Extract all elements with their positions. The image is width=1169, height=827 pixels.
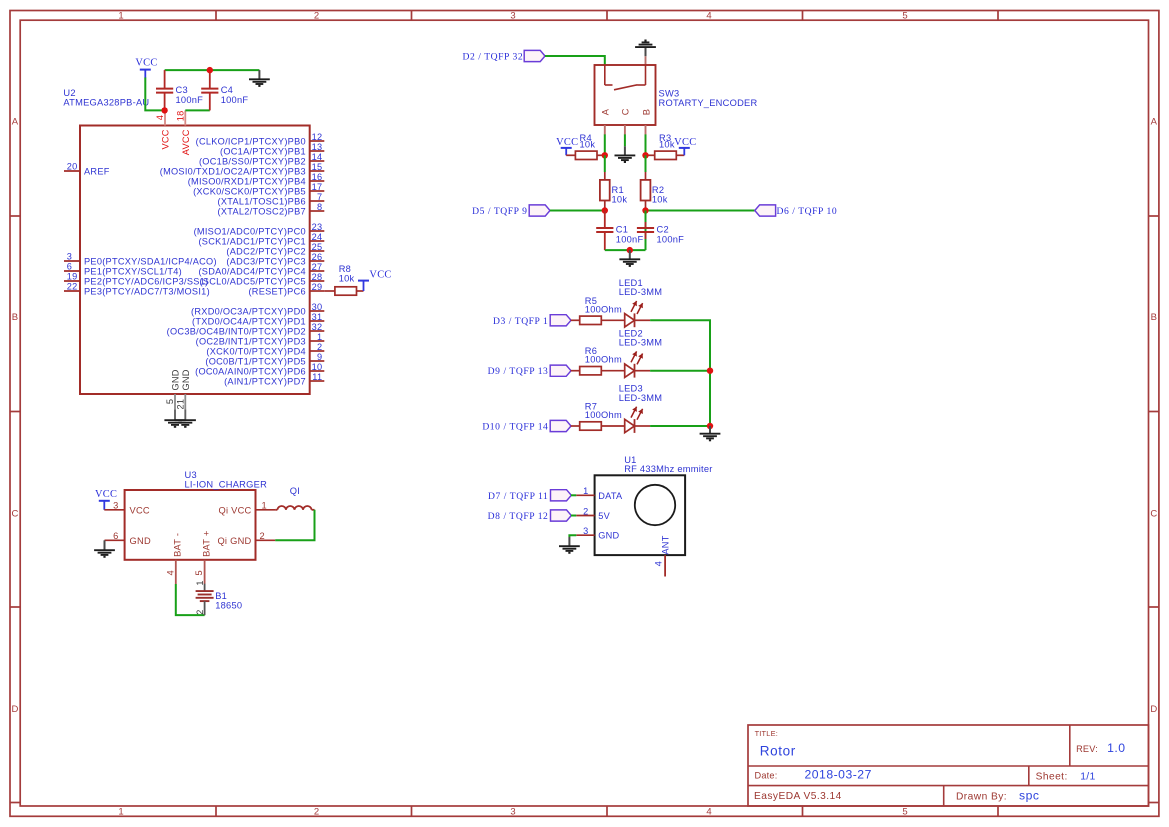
U2 pin 5 GND <box>165 369 181 419</box>
wire node B to R3 <box>646 154 655 156</box>
U2 pin 31 PD1 <box>192 312 324 326</box>
svg-text:Qi GND: Qi GND <box>217 536 251 546</box>
U2 pin 4 VCC <box>155 110 171 149</box>
svg-text:3: 3 <box>510 807 515 818</box>
svg-text:Date:: Date: <box>755 771 778 781</box>
svg-text:(ADC2/PTCY)PC2: (ADC2/PTCY)PC2 <box>226 246 305 256</box>
SW3 pin B stub <box>645 125 647 135</box>
switch SW3 ROTARTY_ENCODER body <box>595 65 656 125</box>
wire node B to D6 <box>646 210 755 212</box>
SW3 top pin line <box>645 56 647 65</box>
U2 pin 25 PC2 <box>226 242 324 256</box>
ruler tick bottom <box>606 806 608 816</box>
svg-text:4: 4 <box>706 807 711 818</box>
svg-text:2: 2 <box>195 609 205 614</box>
resistor R6 <box>580 367 602 375</box>
svg-text:1.0: 1.0 <box>1107 741 1125 755</box>
svg-text:Sheet:: Sheet: <box>1036 772 1068 783</box>
U2 pin 22 PE3 <box>64 282 210 297</box>
junction <box>207 67 213 73</box>
svg-text:(ADC3/PTCY)PC3: (ADC3/PTCY)PC3 <box>226 256 305 266</box>
wire R4 to node A <box>597 154 605 156</box>
svg-text:100nF: 100nF <box>176 95 204 105</box>
svg-text:(RESET)PC6: (RESET)PC6 <box>248 286 305 296</box>
U2 pin 7 PB6 <box>218 192 325 206</box>
svg-text:28: 28 <box>312 272 323 282</box>
U3 pin 4 BAT- <box>165 533 182 584</box>
svg-text:12: 12 <box>312 132 323 142</box>
svg-text:18: 18 <box>175 110 185 121</box>
SW3 pin C stub <box>624 125 626 135</box>
svg-text:PE1(PTCXY/SCL1/T4): PE1(PTCXY/SCL1/T4) <box>84 266 182 276</box>
U2 pin 3 PE0 <box>64 252 217 267</box>
svg-text:Rotor: Rotor <box>760 744 796 759</box>
svg-text:B: B <box>1151 312 1157 323</box>
capacitor C1 leads <box>604 211 606 251</box>
svg-text:5V: 5V <box>598 511 610 521</box>
svg-text:R8: R8 <box>339 264 351 274</box>
svg-text:VCC: VCC <box>674 137 696 148</box>
svg-text:11: 11 <box>312 372 322 382</box>
svg-text:17: 17 <box>312 182 323 192</box>
svg-text:6: 6 <box>113 531 118 541</box>
svg-text:1: 1 <box>195 580 205 585</box>
svg-text:LED-3MM: LED-3MM <box>619 393 663 403</box>
wire D2 to SW3 pin <box>545 56 605 65</box>
svg-text:D2 / TQFP 32: D2 / TQFP 32 <box>462 52 523 63</box>
U2 pin 6 PE1 <box>64 262 182 277</box>
svg-text:(MOSI0/TXD1/OC2A/PTCXY)PB3: (MOSI0/TXD1/OC2A/PTCXY)PB3 <box>160 166 306 176</box>
U1 pin 4 ANT <box>654 535 671 576</box>
svg-text:VCC: VCC <box>95 489 117 500</box>
U2 pin 30 PD0 <box>191 302 324 316</box>
net flag D8 / TQFP 12 <box>551 510 572 521</box>
ground above SW3 <box>635 41 656 57</box>
ruler tick right <box>1149 606 1159 608</box>
svg-text:C: C <box>1150 508 1157 519</box>
svg-text:(OC0B/T1/PTCXY)PD5: (OC0B/T1/PTCXY)PD5 <box>205 356 306 366</box>
R1 lead bottom <box>604 201 606 209</box>
ruler tick bottom <box>411 806 413 816</box>
LED LED1 LED-3MM <box>625 301 643 327</box>
U2 pin 17 PB5 <box>193 182 324 196</box>
svg-text:VCC: VCC <box>161 129 171 149</box>
VCC power symbol at R8 <box>358 281 369 291</box>
LED2 anode lead <box>635 370 651 372</box>
wire R3 to VCC <box>676 154 684 156</box>
svg-text:23: 23 <box>312 222 323 232</box>
svg-text:21: 21 <box>176 399 186 410</box>
svg-text:Qi VCC: Qi VCC <box>218 505 251 515</box>
net flag D2 / TQFP 32 <box>524 50 545 61</box>
resistor R3 <box>655 151 677 159</box>
svg-text:19: 19 <box>67 272 78 282</box>
svg-text:(OC0A/AIN0/PTCXY)PD6: (OC0A/AIN0/PTCXY)PD6 <box>195 366 306 376</box>
wire LED3 to bus <box>650 425 710 427</box>
capacitor C4 leads <box>209 70 211 110</box>
U1 pin 1 DATA <box>576 486 623 501</box>
U3 pin 6 GND <box>105 531 151 546</box>
svg-text:TITLE:: TITLE: <box>755 729 778 738</box>
U2 pin 28 PC5 <box>199 272 324 286</box>
net flag D10 / TQFP 14 <box>550 420 571 431</box>
U2 pin 29 PC6 <box>248 282 324 296</box>
VCC power symbol at R3 <box>679 148 690 155</box>
junction <box>602 207 608 213</box>
svg-text:VCC: VCC <box>130 505 150 515</box>
svg-text:10k: 10k <box>659 140 675 150</box>
svg-text:(RXD0/OC3A/PTCXY)PD0: (RXD0/OC3A/PTCXY)PD0 <box>191 306 306 316</box>
svg-text:3: 3 <box>510 10 515 21</box>
svg-text:QI: QI <box>290 486 300 496</box>
ground under U2 pin21 <box>175 410 196 427</box>
ruler tick bottom <box>802 806 804 816</box>
U2 pin 13 PB1 <box>220 142 324 156</box>
svg-text:10k: 10k <box>580 140 596 150</box>
svg-text:D3 / TQFP 1: D3 / TQFP 1 <box>493 316 548 327</box>
junction <box>707 368 713 374</box>
svg-text:32: 32 <box>312 322 323 332</box>
wire R7 to LED3 <box>601 425 624 427</box>
svg-text:(MISO0/RXD1/PTCXY)PB4: (MISO0/RXD1/PTCXY)PB4 <box>188 176 306 186</box>
svg-text:VCC: VCC <box>369 270 391 281</box>
svg-text:5: 5 <box>902 807 907 818</box>
svg-text:2: 2 <box>314 807 319 818</box>
wire R1 to D5 row <box>604 209 606 211</box>
svg-text:100Ohm: 100Ohm <box>585 410 622 420</box>
svg-text:PE0(PTCXY/SDA1/ICP4/ACO): PE0(PTCXY/SDA1/ICP4/ACO) <box>84 256 217 266</box>
U3 pin 2 Qi GND <box>217 531 275 546</box>
LED LED2 LED-3MM <box>625 351 643 377</box>
svg-text:(SDA0/ADC4/PTCY)PC4: (SDA0/ADC4/PTCY)PC4 <box>198 266 305 276</box>
svg-text:4: 4 <box>654 561 664 566</box>
net flag D3 / TQFP 1 <box>550 315 571 326</box>
wire R6 to LED2 <box>601 370 624 372</box>
svg-text:D7 / TQFP 11: D7 / TQFP 11 <box>488 491 548 502</box>
svg-text:C3: C3 <box>176 85 188 95</box>
VCC power symbol at R4 <box>561 148 572 155</box>
svg-text:100nF: 100nF <box>657 234 685 244</box>
ground below C1/C2 <box>619 250 640 266</box>
svg-text:A: A <box>12 116 19 127</box>
svg-text:5: 5 <box>902 10 907 21</box>
wire PC6 to R8 <box>324 290 335 292</box>
net flag D7 / TQFP 11 <box>551 490 572 501</box>
junction <box>707 423 713 429</box>
wire SW3 B down <box>645 134 647 155</box>
wire pin18 to C4 <box>185 109 210 111</box>
wire R5 to LED1 <box>601 319 624 321</box>
svg-text:spc: spc <box>1019 788 1039 802</box>
U2 pin 12 PB0 <box>196 132 325 146</box>
svg-text:22: 22 <box>67 282 78 292</box>
ruler tick top <box>606 11 608 21</box>
wire VCC to R4 <box>566 154 575 156</box>
svg-text:8: 8 <box>317 202 322 212</box>
svg-text:R2: R2 <box>652 185 664 195</box>
svg-text:1: 1 <box>583 486 588 496</box>
svg-text:(SCL0/ADC5/PTCY)PC5: (SCL0/ADC5/PTCY)PC5 <box>199 276 305 286</box>
svg-text:D9 / TQFP 13: D9 / TQFP 13 <box>488 366 549 377</box>
wire node A to R1 <box>604 155 606 172</box>
svg-text:(XCK0/SCK0/PTCXY)PB5: (XCK0/SCK0/PTCXY)PB5 <box>193 186 306 196</box>
capacitor C1 <box>596 228 613 232</box>
svg-text:100Ohm: 100Ohm <box>585 304 622 314</box>
svg-text:RF 433Mhz emmiter: RF 433Mhz emmiter <box>624 464 712 474</box>
battery B1 pin 1 <box>195 580 205 591</box>
U2 pin 15 PB3 <box>160 162 325 176</box>
svg-text:9: 9 <box>317 352 322 362</box>
svg-text:C: C <box>11 508 18 519</box>
title block frame <box>748 725 1149 806</box>
ground at SW3 C <box>615 146 636 162</box>
wire C1 C2 bottoms <box>605 249 646 251</box>
wire C3/C4 tops to ground <box>165 69 260 71</box>
ruler tick left <box>10 215 20 217</box>
svg-text:ROTARTY_ENCODER: ROTARTY_ENCODER <box>659 98 758 108</box>
VCC power symbol at U3 <box>99 501 110 510</box>
wire R2 to D6 row <box>645 209 647 211</box>
U1 pin 2 5V <box>576 506 610 521</box>
wire U1 GND to ground <box>569 535 576 537</box>
capacitor C2 <box>637 228 654 232</box>
svg-text:25: 25 <box>312 242 323 252</box>
svg-text:4: 4 <box>155 115 165 120</box>
svg-text:DATA: DATA <box>598 491 623 501</box>
U3 pin 3 VCC <box>104 500 150 515</box>
wire SW3 A down <box>604 134 606 155</box>
U2 pin 8 PB7 <box>218 202 325 216</box>
svg-text:VCC: VCC <box>135 57 157 68</box>
U2 pin 1 PD3 <box>196 332 325 346</box>
svg-text:1/1: 1/1 <box>1080 771 1095 782</box>
junction <box>627 247 633 253</box>
ground at U1 <box>559 537 580 553</box>
wire QI to Qi GND <box>275 510 314 541</box>
U2 pin 26 PC3 <box>226 252 324 266</box>
resistor R2 <box>641 180 651 201</box>
svg-text:D: D <box>1150 704 1157 715</box>
svg-text:5: 5 <box>165 399 175 404</box>
svg-text:B: B <box>641 109 651 115</box>
U2 pin 16 PB4 <box>188 172 325 186</box>
U2 pin 23 PC0 <box>194 222 325 236</box>
svg-text:D: D <box>11 704 18 715</box>
svg-text:13: 13 <box>312 142 323 152</box>
svg-text:30: 30 <box>312 302 323 312</box>
ruler tick top <box>215 11 217 21</box>
capacitor C2 leads <box>645 222 647 239</box>
U2 pin 10 PD6 <box>195 362 324 376</box>
svg-text:3: 3 <box>583 526 588 536</box>
svg-text:(OC1A/PTCXY)PB1: (OC1A/PTCXY)PB1 <box>220 146 306 156</box>
resistor R8 <box>335 287 357 295</box>
svg-text:B: B <box>12 312 18 323</box>
svg-text:(XCK0/T0/PTCXY)PD4: (XCK0/T0/PTCXY)PD4 <box>206 346 306 356</box>
svg-text:4: 4 <box>165 570 175 575</box>
svg-text:ATMEGA328PB-AU: ATMEGA328PB-AU <box>63 97 149 107</box>
net flag D5 / TQFP 9 <box>529 205 550 216</box>
svg-text:24: 24 <box>312 232 323 242</box>
svg-text:AVCC: AVCC <box>181 129 191 155</box>
svg-text:3: 3 <box>67 252 72 262</box>
ruler tick top <box>411 11 413 21</box>
U2 pin 24 PC1 <box>198 232 324 246</box>
svg-text:ANT: ANT <box>660 535 670 554</box>
svg-text:C2: C2 <box>657 224 669 234</box>
U2 pin 32 PD2 <box>167 322 325 336</box>
svg-text:D10 / TQFP 14: D10 / TQFP 14 <box>482 422 548 433</box>
svg-text:100nF: 100nF <box>221 95 249 105</box>
R2 lead bottom <box>645 201 647 209</box>
svg-text:LI-ION_CHARGER: LI-ION_CHARGER <box>185 479 268 489</box>
ground under U2 pin5 <box>164 410 185 427</box>
U2 pin 9 PD5 <box>205 352 324 366</box>
ground at C3/C4 <box>249 70 270 86</box>
capacitor C3 leads <box>164 70 166 110</box>
svg-text:(OC3B/OC4B/INT0/PTCXY)PD2: (OC3B/OC4B/INT0/PTCXY)PD2 <box>167 326 306 336</box>
svg-text:29: 29 <box>312 282 323 292</box>
wire flag to R5 <box>571 319 580 321</box>
wire VCC to pin4 <box>145 78 164 111</box>
svg-text:(AIN1/PTCXY)PD7: (AIN1/PTCXY)PD7 <box>224 376 306 386</box>
svg-text:10: 10 <box>312 362 323 372</box>
svg-text:1: 1 <box>317 332 322 342</box>
svg-text:20: 20 <box>67 162 78 172</box>
capacitor C3 <box>156 89 173 93</box>
svg-text:16: 16 <box>312 172 323 182</box>
wire flag to R7 <box>571 425 580 427</box>
svg-text:(XTAL1/TOSC1)PB6: (XTAL1/TOSC1)PB6 <box>218 196 306 206</box>
svg-text:Drawn By:: Drawn By: <box>956 791 1007 802</box>
svg-text:(CLKO/ICP1/PTCXY)PB0: (CLKO/ICP1/PTCXY)PB0 <box>196 136 306 146</box>
svg-text:A: A <box>1151 116 1158 127</box>
VCC power symbol at U2 <box>140 70 151 79</box>
ruler tick top <box>802 11 804 21</box>
U3 pin 5 BAT+ <box>194 530 211 584</box>
svg-text:7: 7 <box>317 192 322 202</box>
capacitor C4 <box>201 89 218 93</box>
LED3 anode lead <box>635 425 651 427</box>
svg-text:10k: 10k <box>339 274 355 284</box>
ruler tick right <box>1149 215 1159 217</box>
ruler tick right <box>1149 411 1159 413</box>
wire D7 / TQFP 11 to U1 <box>571 494 576 496</box>
wire BAT- to battery negative <box>176 584 205 615</box>
wire node B down through C2 <box>645 211 647 251</box>
svg-text:VCC: VCC <box>556 137 578 148</box>
svg-text:D8 / TQFP 12: D8 / TQFP 12 <box>488 511 549 522</box>
svg-text:LED-3MM: LED-3MM <box>619 338 663 348</box>
svg-text:C: C <box>621 108 631 115</box>
svg-text:2: 2 <box>583 506 588 516</box>
IC U2 ATMEGA328PB-AU body <box>80 126 310 395</box>
inductor QI <box>275 506 314 510</box>
IC U3 LI-ION_CHARGER body <box>125 490 256 560</box>
svg-text:6: 6 <box>67 262 72 272</box>
svg-text:4: 4 <box>706 10 711 21</box>
U2 pin 21 GND <box>176 369 192 419</box>
module U1 RF body <box>595 475 686 555</box>
wire node B to R2 <box>645 155 647 172</box>
U1 circle <box>635 485 675 525</box>
junction <box>602 152 608 158</box>
U1 pin 3 GND <box>576 526 619 541</box>
U2 pin 11 PD7 <box>224 372 324 386</box>
svg-text:100Ohm: 100Ohm <box>585 355 622 365</box>
svg-text:C1: C1 <box>616 224 628 234</box>
battery B1 pin 2 <box>195 601 205 615</box>
svg-text:2: 2 <box>317 342 322 352</box>
resistor R4 <box>575 151 597 159</box>
svg-text:1: 1 <box>118 807 123 818</box>
svg-text:26: 26 <box>312 252 323 262</box>
ground at U3 <box>94 540 115 557</box>
U3 pin 1 Qi VCC <box>218 500 275 515</box>
wire LED1 to bus <box>650 320 710 426</box>
svg-text:(SCK1/ADC1/PTCY)PC1: (SCK1/ADC1/PTCY)PC1 <box>198 236 305 246</box>
ruler tick bottom <box>215 806 217 816</box>
svg-text:D5 / TQFP 9: D5 / TQFP 9 <box>472 206 527 217</box>
R2 lead <box>645 172 647 179</box>
U2 pin 14 PB2 <box>199 152 324 166</box>
ruler tick bottom <box>997 806 999 816</box>
net flag D6 / TQFP 10 <box>755 205 776 216</box>
svg-text:GND: GND <box>171 369 181 390</box>
LED1 anode lead <box>635 319 651 321</box>
svg-text:27: 27 <box>312 262 323 272</box>
svg-text:2: 2 <box>260 531 265 541</box>
svg-text:D6 / TQFP 10: D6 / TQFP 10 <box>777 206 838 217</box>
ground below LED bus <box>700 426 721 440</box>
svg-text:EasyEDA V5.3.14: EasyEDA V5.3.14 <box>754 791 842 802</box>
svg-text:C4: C4 <box>221 85 233 95</box>
ruler tick left <box>10 411 20 413</box>
svg-text:10k: 10k <box>612 194 628 204</box>
U2 pin 27 PC4 <box>198 262 324 276</box>
svg-text:LED-3MM: LED-3MM <box>619 287 663 297</box>
ruler tick right <box>1149 802 1159 804</box>
wire D8 / TQFP 12 to U1 <box>571 515 576 517</box>
svg-text:REV:: REV: <box>1076 744 1098 754</box>
R1 lead <box>604 172 606 179</box>
svg-text:2018-03-27: 2018-03-27 <box>805 767 872 781</box>
svg-text:SW3: SW3 <box>659 88 680 98</box>
svg-text:GND: GND <box>130 536 151 546</box>
svg-text:R1: R1 <box>612 185 624 195</box>
U2 pin 18 AVCC <box>175 110 191 155</box>
svg-text:14: 14 <box>312 152 323 162</box>
svg-text:BAT +: BAT + <box>201 530 211 557</box>
svg-text:(MISO1/ADC0/PTCY)PC0: (MISO1/ADC0/PTCY)PC0 <box>194 226 306 236</box>
wire LED2 to bus <box>650 370 710 372</box>
svg-text:A: A <box>601 108 611 115</box>
svg-text:GND: GND <box>598 531 619 541</box>
svg-text:31: 31 <box>312 312 323 322</box>
svg-text:(OC1B/SS0/PTCXY)PB2: (OC1B/SS0/PTCXY)PB2 <box>199 156 306 166</box>
svg-text:1: 1 <box>262 500 267 510</box>
junction <box>642 152 648 158</box>
svg-text:10k: 10k <box>652 194 668 204</box>
svg-text:(XTAL2/TOSC2)PB7: (XTAL2/TOSC2)PB7 <box>218 206 306 216</box>
svg-text:(TXD0/OC4A/PTCXY)PD1: (TXD0/OC4A/PTCXY)PD1 <box>192 316 306 326</box>
svg-text:5: 5 <box>194 570 204 575</box>
resistor R5 <box>580 316 602 324</box>
wire R8 to VCC <box>357 290 364 292</box>
resistor R7 <box>580 422 602 430</box>
junction <box>642 207 648 213</box>
U2 pin 2 PD4 <box>206 342 324 356</box>
